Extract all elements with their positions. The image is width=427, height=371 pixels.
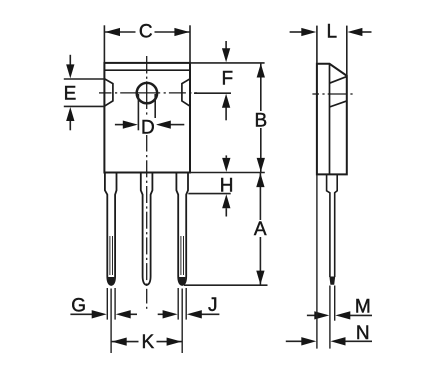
dimension M arrows xyxy=(307,314,316,316)
H reference line (lead shoulder) xyxy=(188,193,230,195)
horizontal centerline xyxy=(99,92,197,94)
F reference line (hole centerline extended) xyxy=(194,92,231,94)
side view lead tip xyxy=(329,277,335,285)
svg-text:F: F xyxy=(221,69,233,90)
L extension lines (body faces extended up) xyxy=(316,26,318,64)
dimension N arrows xyxy=(286,340,303,342)
lead 1 dark tip xyxy=(108,277,114,285)
dimension E extension lines xyxy=(64,78,105,80)
svg-text:C: C xyxy=(139,22,153,43)
side view inner line xyxy=(329,64,331,175)
svg-text:A: A xyxy=(254,219,267,240)
label D xyxy=(140,118,157,135)
dimension D extension lines xyxy=(137,94,139,130)
N extension line (body face extended down) xyxy=(316,174,318,348)
dimension L arrows xyxy=(290,31,303,33)
dimension G arrows xyxy=(70,313,93,315)
lead 1 xyxy=(105,173,117,285)
lead 2 xyxy=(141,173,153,285)
lead 3 dark tip xyxy=(179,277,185,285)
lead 3 xyxy=(176,173,188,285)
svg-text:M: M xyxy=(355,296,371,317)
dimension D arrows xyxy=(115,124,124,126)
G extension lines xyxy=(106,288,108,320)
M extension lines xyxy=(329,286,331,349)
dimension E arrows xyxy=(69,55,71,66)
top reference line (body top extended) xyxy=(190,62,265,64)
svg-text:J: J xyxy=(208,295,218,316)
side view chamfer shading diagonal xyxy=(330,77,347,84)
mounting hole xyxy=(137,83,157,103)
svg-text:H: H xyxy=(220,175,234,196)
flange line xyxy=(104,69,190,71)
lead 3 inner lines xyxy=(180,236,182,275)
dimension H arrows xyxy=(225,155,227,158)
svg-text:K: K xyxy=(142,332,155,353)
package body front view xyxy=(104,63,190,173)
dimension A xyxy=(259,173,261,286)
side view body xyxy=(317,64,347,175)
side view lower diagonal xyxy=(330,101,347,107)
dimension F arrows xyxy=(225,41,227,49)
left side notch xyxy=(104,79,113,106)
right side notch xyxy=(182,79,190,106)
body bottom reference line extended xyxy=(190,172,265,174)
side view centerline xyxy=(312,93,352,95)
dimension B xyxy=(260,63,262,173)
leads end reference line xyxy=(184,284,268,286)
dimension K xyxy=(111,341,182,343)
svg-text:E: E xyxy=(64,83,77,104)
dimension C xyxy=(104,31,190,33)
svg-text:G: G xyxy=(71,296,86,317)
dimension J arrows xyxy=(158,313,165,315)
svg-text:L: L xyxy=(327,22,338,43)
svg-text:N: N xyxy=(356,323,370,344)
svg-text:B: B xyxy=(255,111,268,132)
side view lead xyxy=(327,174,330,277)
dimension C extension lines xyxy=(103,25,105,63)
vertical centerline xyxy=(146,56,148,309)
J extension lines xyxy=(177,288,179,320)
lead 1 inner lines xyxy=(109,236,111,275)
K extension lines xyxy=(110,289,112,354)
svg-text:D: D xyxy=(141,117,155,138)
